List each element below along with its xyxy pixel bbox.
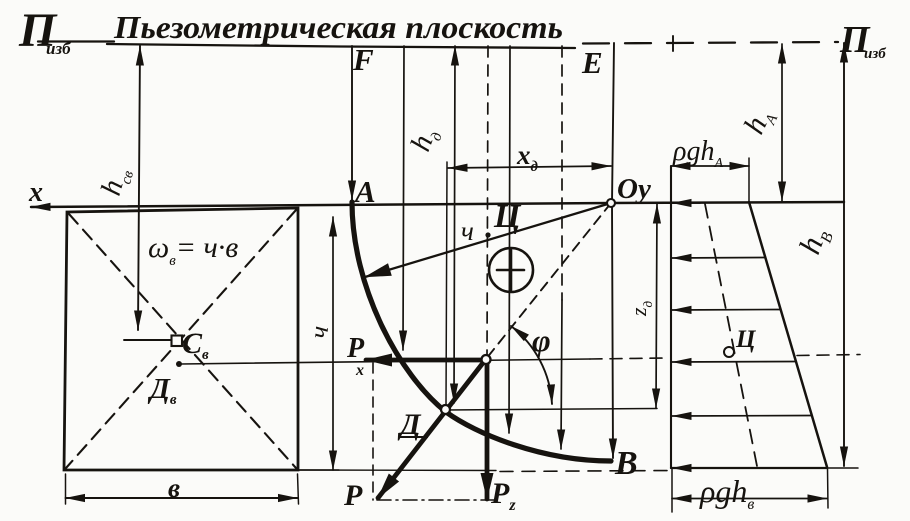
square diagonal 1 dashed [69, 214, 296, 468]
svg-text:zд: zд [626, 300, 655, 317]
vertical F line to A [351, 46, 353, 200]
svg-text:Оу: Оу [617, 173, 651, 205]
b dimension extensions [65, 474, 67, 504]
underline of left P_izb [38, 40, 114, 42]
svg-text:хд: хд [516, 140, 539, 175]
tick at trapezoid edge on piezometric line [672, 36, 674, 51]
pressure rows [672, 202, 700, 204]
svg-text:А: А [353, 174, 376, 209]
vertical force line x510 [509, 46, 510, 433]
r dimension line right of square [332, 217, 334, 470]
svg-text:Рz: Рz [490, 477, 516, 514]
piezometric plane dashed line [583, 42, 838, 44]
h_d dimension line [454, 46, 455, 403]
svg-text:φ: φ [532, 322, 551, 358]
svg-text:hА: hА [737, 102, 781, 140]
svg-text:ρghв: ρghв [699, 473, 754, 513]
svg-text:В: В [614, 445, 638, 482]
svg-text:Ц: Ц [735, 326, 757, 353]
dash-dot construction line [377, 499, 497, 501]
vertical force line x404 [403, 46, 404, 350]
square bottom extension line [298, 469, 339, 471]
dashed vertical through node [487, 46, 488, 359]
radius arrow from O [365, 203, 611, 277]
svg-text:ρghА: ρghА [672, 136, 723, 171]
svg-text:Рх: Рх [346, 333, 365, 379]
svg-text:hсв: hсв [95, 163, 137, 200]
D label underline [399, 436, 428, 438]
svg-text:изб: изб [46, 39, 72, 58]
thin bottom level line [298, 469, 496, 472]
svg-text:Св: Св [182, 327, 209, 363]
centre depth line across figure [181, 359, 590, 364]
svg-text:в: в [168, 473, 180, 503]
D point circle [441, 405, 450, 414]
x_d extension line through D [446, 162, 447, 406]
piezometric plane title underline [107, 44, 575, 48]
x axis [31, 202, 844, 207]
pressure diagram bottom edge [671, 467, 827, 469]
pressure diagram dashed median [705, 204, 757, 466]
vertical line E through O to B [612, 43, 614, 203]
pressure diagram slant edge [749, 202, 827, 467]
z_d dimension line [656, 204, 657, 408]
rho g h_A right extension [748, 158, 750, 203]
svg-text:Ц: Ц [493, 198, 522, 235]
plus circle symbol [489, 248, 533, 292]
svg-text:Пьезометрическая плоскость: Пьезометрическая плоскость [113, 9, 563, 45]
dashed line O to D [486, 203, 611, 359]
phi angle arc [511, 326, 552, 404]
curved surface AB [352, 202, 611, 461]
P resultant force arrow [378, 359, 486, 498]
svg-text:F: F [352, 42, 374, 77]
h_A dimension line [781, 44, 783, 201]
svg-text:ωв= ч·в: ωв= ч·в [148, 231, 238, 269]
h_sv dimension line [138, 46, 140, 330]
centroid tick [124, 339, 172, 341]
svg-text:hВ: hВ [792, 222, 837, 259]
h_B dimension line [843, 43, 845, 466]
b dimension line [66, 497, 298, 499]
D level line [446, 409, 657, 411]
rho g h_v dimension line [672, 498, 827, 500]
square diagonal 2 dashed [66, 210, 296, 468]
rho g h_A dimension line [671, 165, 749, 167]
x_d dimension line [448, 166, 611, 168]
dashed bottom level line [500, 471, 670, 472]
svg-text:Р: Р [343, 479, 363, 512]
vertical force line x562 [561, 46, 563, 300]
radius label dot [485, 232, 490, 237]
svg-text:Е: Е [581, 45, 603, 80]
centroid square marker C_v [172, 336, 183, 347]
O point circle [607, 199, 615, 207]
svg-text:изб: изб [864, 46, 886, 62]
pressure centre circle [724, 347, 734, 357]
dashed vertical at P tip [372, 363, 374, 500]
svg-text:х: х [28, 177, 43, 208]
node circle [482, 355, 491, 364]
pressure centre dot D_v [176, 361, 182, 367]
svg-text:ч: ч [304, 325, 334, 340]
svg-text:ч: ч [461, 216, 474, 246]
svg-text:Дв: Дв [147, 373, 177, 408]
svg-text:hд: hд [405, 123, 447, 156]
P_x force arrow [366, 358, 486, 363]
wall square [64, 208, 298, 470]
pressure diagram left edge [670, 166, 672, 468]
P_z force arrow [485, 359, 490, 499]
